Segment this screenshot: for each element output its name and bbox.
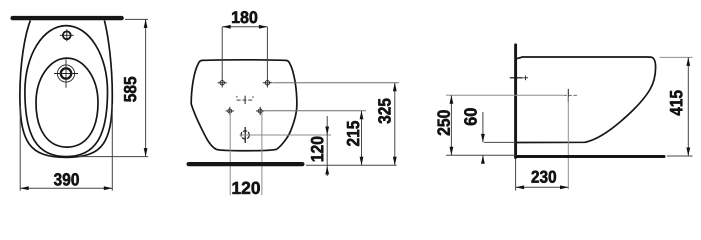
extension line from right mounting hole (front)	[272, 82, 399, 84]
mounting hole left (front)	[220, 81, 224, 85]
lower hole right (front)	[258, 109, 262, 113]
dimension text 60 (rotated)	[464, 108, 477, 125]
dimension 390 extension lines	[19, 106, 21, 191]
floor bar (side)	[516, 155, 664, 158]
dimension text 415 (rotated)	[670, 90, 683, 115]
dimension 180 line with arrows	[222, 26, 267, 28]
dimension 585 line with arrows	[145, 19, 147, 156]
bidet body outline (front)	[191, 60, 297, 151]
dimension text 230	[532, 171, 557, 183]
dimension 415 line with arrows	[687, 57, 689, 156]
wall line (side)	[514, 45, 517, 158]
drain vertical centerline (side)	[567, 97, 569, 189]
dimension 250 line with arrows	[450, 95, 452, 155]
drain extension line to left dims (side)	[446, 94, 563, 96]
dimension text 215 (rotated)	[347, 121, 360, 146]
drain center mark (side)	[567, 89, 569, 102]
floor extension line (side, right, to 415)	[667, 155, 693, 157]
floor extension line (front, right)	[306, 164, 397, 166]
extension line from drain (front)	[240, 134, 332, 136]
bidet bowl oval	[36, 58, 98, 147]
wall bar (top view)	[13, 16, 122, 20]
bidet rim oval	[25, 26, 108, 157]
dimension 230 line with arrows	[516, 186, 569, 188]
dimension 390 line with arrows	[20, 187, 112, 189]
dimension 120 line (front right) with outside arrows	[326, 116, 328, 176]
floor extension line (side, left of wall)	[446, 154, 516, 156]
dimension text 180	[232, 11, 257, 23]
dimension 325 line with arrows	[394, 83, 396, 165]
floor bar (front)	[189, 162, 303, 166]
mounting bolt mark on wall (side)	[510, 77, 523, 79]
dimension 180 extension lines	[221, 27, 223, 78]
center mark (front)	[244, 96, 246, 104]
extension line from lower-right hole (front)	[265, 110, 367, 112]
bidet bottom extension line (side, left of wall)	[484, 141, 516, 143]
lower hole left (front)	[228, 109, 232, 113]
bidet outer outline (plan)	[20, 20, 112, 157]
dimension text 120 (bottom)	[233, 182, 260, 194]
dimension text 585	[124, 77, 136, 102]
dimension text 390	[54, 173, 79, 185]
faucet hole (plan)	[63, 31, 71, 39]
dimension 60 line with outside arrows	[482, 112, 484, 142]
bidet profile (side)	[517, 57, 656, 143]
mounting hole right (front)	[265, 81, 269, 85]
dimension text 250 (rotated)	[437, 110, 450, 135]
drain hole (plan)	[61, 68, 71, 78]
drain hole (front, dashed circle)	[241, 131, 249, 139]
dimension text 120 (front right, rotated)	[311, 137, 324, 162]
centerline from lower-left hole to below floor	[229, 113, 231, 196]
wall extension line below floor (side)	[515, 159, 517, 191]
dimension text 325 (rotated)	[378, 99, 391, 124]
centerline from lower-right hole to below floor	[261, 113, 263, 196]
dimension 585 extension lines	[125, 18, 148, 20]
dimension 215 line with arrows	[361, 111, 363, 166]
top extension line (side, to 415)	[660, 56, 693, 58]
